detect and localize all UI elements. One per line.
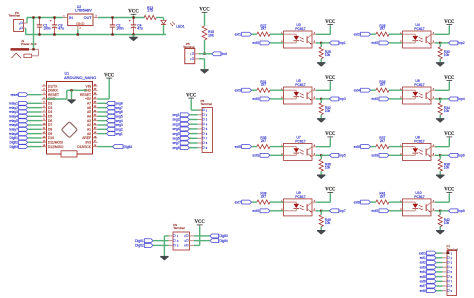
wire seg6 U1 [98,111,107,113]
svg-text:Terminal: Terminal [201,102,213,106]
net label seg4 at P8 [172,127,189,131]
svg-text:inp1: inp1 [339,41,345,45]
svg-text:Terminal: Terminal [447,248,459,252]
junction inp4 node [439,98,441,100]
wire relay1 [28,102,42,104]
wire U1 gnd drop [71,90,73,99]
ground P5 [200,69,208,74]
terminal P8 [198,99,213,152]
wire to inp7 flag [321,210,329,212]
svg-text:2k7: 2k7 [261,83,266,87]
svg-text:VCC: VCC [325,76,336,81]
svg-text:inp5: inp5 [339,153,345,157]
wire ext5 P7 [436,276,442,278]
junction U2 gnd [77,33,79,35]
power VCC U7 [325,132,336,138]
resistor R28 10k [319,47,331,59]
wire ext7 to R39 [252,201,257,203]
wire U7 emitter [316,154,321,156]
junction P7 pin1 [447,251,450,254]
net label inp4 [449,97,465,101]
net label seg1 at U1 [107,132,123,136]
svg-text:10k: 10k [325,53,331,57]
ground U3 [317,62,325,67]
net label inp5 [330,153,346,157]
net label Digit2 at U1 [9,140,27,144]
resistor R30 10k [438,47,450,59]
wire seg1 P8 [190,114,198,116]
net label Digit4 at U1 [113,145,133,149]
svg-text:PC817: PC817 [295,195,305,199]
wire U3 emitter [316,42,321,44]
resistor R40 10k [319,215,331,227]
wire VCC to P8 pin1 [191,99,202,110]
wire U3 collector to VCC [316,26,330,35]
wire ext4 to R33 [371,89,376,91]
wire ext1 P7 [436,257,442,259]
svg-text:reset: reset [11,93,19,97]
capacitor C4 47u [129,18,143,35]
svg-text:GND: GND [76,22,85,26]
svg-text:10k: 10k [444,221,450,225]
net label Digit3 at U1 [9,145,27,149]
wire LED cathode to rail [163,25,165,35]
svg-text:100n: 100n [116,26,124,30]
net label extG at U4 [371,41,389,45]
LED LED1 [161,20,185,28]
wire R42 to ground [439,227,441,230]
svg-text:inp8: inp8 [458,209,464,213]
svg-text:VCC: VCC [195,220,206,225]
svg-text:10k: 10k [325,221,331,225]
net label seg7 at U1 [107,106,123,110]
wire R41 to U10 [389,201,403,203]
Arduino USB tab [61,151,77,157]
net label ext1 at P7 [420,256,437,260]
svg-text:Digit3: Digit3 [219,234,228,238]
svg-text:10k: 10k [444,109,450,113]
wire inp7 to R40 [320,211,322,215]
ground U7 [317,175,325,180]
svg-text:PC817: PC817 [295,27,305,31]
ground U10 [436,230,444,235]
net label seg5 at U1 [107,114,123,118]
svg-text:VCC: VCC [199,8,210,13]
svg-text:VCC: VCC [325,20,336,25]
wire R33 to U6 [389,89,403,91]
terminal P9 [169,223,195,250]
svg-text:ext3: ext3 [420,265,426,269]
svg-text:2k7: 2k7 [261,195,266,199]
svg-text:47u: 47u [58,26,64,30]
wire U4 collector to VCC [435,26,449,35]
net label ext1 [235,32,252,36]
net label inp7 [330,209,346,213]
svg-text:ext3: ext3 [235,88,241,92]
wire Digit1 U1 [28,137,42,139]
Arduino pins right [77,84,97,149]
resistor R15 10K [202,26,215,40]
voltage regulator U2 L7805ABV [63,5,99,29]
optocoupler U8 PC817 [400,136,435,161]
terminal P7 [443,245,459,296]
wire seg4 P8 [190,128,198,130]
svg-text:VCC: VCC [444,20,455,25]
wire extG to U3 [270,42,284,44]
wire P9 pin1 to ground [164,236,168,256]
resistor R33 2k7 [376,80,389,93]
svg-text:ext8: ext8 [354,200,360,204]
svg-text:D13/SCK: D13/SCK [77,145,92,149]
resistor R35 2k7 [257,136,270,149]
wire relay7 [28,128,42,130]
net label ext5 at P7 [420,275,437,279]
wire relay5 [28,120,42,122]
resistor R38 10k [438,159,450,171]
net label ext5 [235,145,252,149]
net label Digit1 at U1 [9,136,27,140]
wire seg3 P8 [190,123,198,125]
svg-text:extG: extG [252,209,259,213]
wire U8 emitter [435,154,440,156]
svg-text:Digit3: Digit3 [9,145,18,149]
svg-text:extG: extG [371,97,378,101]
svg-text:seg3: seg3 [172,122,179,126]
net label ext2 [354,32,371,36]
wire Digit2 U1 [28,141,42,143]
svg-text:Digit1: Digit1 [135,239,144,243]
wire R27 to U3 [270,33,284,35]
wire ext3 P7 [436,266,442,268]
junction inst node [203,53,205,55]
svg-text:inp2: inp2 [458,41,464,45]
svg-text:IN: IN [69,16,73,20]
svg-text:47u: 47u [137,26,143,30]
svg-text:10k: 10k [444,166,450,170]
svg-text:ext7: ext7 [420,284,426,288]
wire extG to U6 [389,98,403,100]
svg-text:VCC: VCC [186,93,197,98]
net label relay7 [9,127,28,131]
optocoupler U6 PC817 [400,79,435,104]
svg-text:ext7: ext7 [235,200,241,204]
wire R32 to ground [320,115,322,118]
svg-text:ext4: ext4 [354,88,360,92]
junction C4 top [132,16,134,18]
wire GND net of U1 [47,90,87,99]
junction inp2 node [439,42,441,44]
svg-text:100n: 100n [43,26,51,30]
svg-text:inp7: inp7 [339,209,345,213]
net label ext3 [235,88,252,92]
svg-text:VCC: VCC [104,73,115,78]
wire ext4 P7 [436,271,442,273]
wire extG to U8 [389,154,403,156]
net label relay1 [9,101,28,105]
wire U7 collector to VCC [316,138,330,147]
ground U9 [317,230,325,235]
wire R28 to ground [320,59,322,62]
net label Digit2 at P9 [135,243,153,247]
svg-text:PC817: PC817 [295,139,305,143]
wire P9 pin4 [194,240,210,242]
resistor R39 2k7 [257,192,270,205]
net label extG at P7 [419,251,436,255]
wire P6 pin2 to GND rail [26,28,166,34]
wire R15 to junction [204,40,206,54]
wire to inp3 flag [321,98,329,100]
wire inp4 to R34 [439,99,441,103]
svg-text:extG: extG [371,153,378,157]
junction VIN rail / jack [32,16,34,18]
svg-text:VCC: VCC [444,132,455,137]
net label extG at U8 [371,153,389,157]
net label ext7 at P7 [420,284,437,288]
resistor R27 2k7 [257,24,270,37]
net label ext4 [354,88,371,92]
resistor R36 10k [319,159,331,171]
wire ext7 P7 [436,285,442,287]
net label seg1 at P8 [172,113,189,117]
net label seg2 at P8 [172,118,189,122]
optocoupler U7 PC817 [281,136,316,161]
svg-text:PC817: PC817 [414,139,424,143]
power VCC main [128,10,139,16]
wire ext2 to R29 [371,33,376,35]
svg-text:2k7: 2k7 [380,195,385,199]
Arduino logo diamond [61,122,77,138]
svg-text:10k: 10k [325,166,331,170]
svg-text:seg7: seg7 [172,141,179,145]
svg-text:ext2: ext2 [354,32,360,36]
wire U6 emitter [435,98,440,100]
wire R36 to ground [320,171,322,174]
power VCC P5 [199,8,210,14]
svg-text:275: 275 [147,9,153,13]
ground U4 [436,62,444,67]
wire seg2 U1 [98,128,107,130]
net label extG at U7 [252,153,270,157]
wire VCC rail [98,17,145,19]
svg-text:10K: 10K [208,33,215,37]
net label inp8 [449,209,465,213]
wire inp2 to R30 [439,43,441,47]
net label extG at U6 [371,97,389,101]
svg-text:Digit2: Digit2 [135,244,144,248]
wire C4 gnd stem [133,35,135,37]
power VCC P9 [195,220,206,226]
wire ext3 to R31 [252,89,257,91]
wire VCC stub [133,16,135,18]
svg-text:seg1: seg1 [116,132,123,136]
wire seg8 U1 [98,102,107,104]
optocoupler U9 PC817 [281,191,316,216]
wire U2 GND pin to rail [77,29,79,34]
wire VCC to R15 [204,13,206,26]
optocoupler U5 PC817 [281,79,316,104]
svg-text:10k: 10k [325,109,331,113]
net label relay4 [9,114,28,118]
wire U4 emitter [435,42,440,44]
net label ext8 [354,200,371,204]
svg-text:VCC: VCC [128,10,139,15]
wire to inp2 flag [440,42,448,44]
wire relay2 [28,107,42,109]
svg-text:seg8: seg8 [172,146,179,150]
wire relay6 [28,124,42,126]
wire seg2 P8 [190,119,198,121]
Arduino pins left [42,84,64,149]
svg-text:D12/MISO: D12/MISO [48,145,64,149]
junction inp6 node [439,154,441,156]
net label ext6 at P7 [420,279,437,283]
Arduino Nano U1 body [47,71,97,154]
wire ext6 to R37 [371,146,376,148]
svg-text:2k7: 2k7 [380,83,385,87]
junction inp8 node [439,210,441,212]
svg-text:LED1: LED1 [176,24,184,28]
svg-text:inp3: inp3 [339,97,345,101]
wire R40 to ground [320,227,322,230]
junction inp3 node [320,98,322,100]
junction C1 top [38,16,40,18]
svg-text:seg5: seg5 [172,132,179,136]
optocoupler U4 PC817 [400,23,435,48]
svg-text:ext2: ext2 [420,261,426,265]
svg-text:VCC: VCC [325,132,336,137]
svg-text:seg4: seg4 [172,127,179,131]
wire R29 to U4 [389,33,403,35]
svg-text:VCC: VCC [444,76,455,81]
optocoupler U10 PC817 [400,191,435,216]
net label seg6 at P8 [172,136,189,140]
resistor R42 10k [438,215,450,227]
wire U9 collector to VCC [316,194,330,203]
resistor R13 275 [144,6,156,20]
wire +5V to VCC [98,79,110,99]
net label relay2 [9,106,28,110]
svg-text:Terminal: Terminal [173,226,185,230]
net label relay8 [9,132,28,136]
wire extG to U10 [389,210,403,212]
svg-text:ext1: ext1 [420,256,426,260]
resistor R37 2k7 [376,136,389,149]
wire ext8 P7 [436,290,442,292]
svg-text:Terminal: Terminal [183,45,195,49]
wire to inp6 flag [440,154,448,156]
wire extG P7 [436,252,442,254]
wire ext8 to R41 [371,201,376,203]
wire seg3 U1 [98,124,107,126]
svg-text:PC817: PC817 [295,83,305,87]
net label inp2 [449,41,465,45]
junction jack pin [32,48,34,50]
junction inp1 node [320,42,322,44]
ground U6 [436,118,444,123]
power VCC U1 [104,73,115,79]
resistor R29 2k7 [376,24,389,37]
net label seg8 at P8 [172,146,189,150]
net label seg2 at U1 [107,127,123,131]
svg-text:2k7: 2k7 [261,139,266,143]
resistor R34 10k [438,103,450,115]
wire inp1 to R28 [320,43,322,47]
capacitor C3 47u [50,18,64,35]
power VCC U6 [444,76,455,82]
wire R37 to U8 [389,146,403,148]
wire ext1 to R27 [252,33,257,35]
power VCC U4 [444,20,455,26]
wire U9 emitter [316,210,321,212]
svg-text:10k: 10k [444,53,450,57]
junction inp7 node [320,210,322,212]
svg-text:inst: inst [222,52,227,56]
svg-text:VCC: VCC [325,188,336,193]
net label relay3 [9,110,28,114]
wire R38 to ground [439,171,441,174]
wire Digit3 U1 [28,146,42,148]
svg-text:inp4: inp4 [458,97,464,101]
net label seg8 at U1 [107,101,123,105]
net label inst [212,52,227,56]
svg-text:L7805ABV: L7805ABV [75,8,92,12]
wire junction to inst flag [205,53,212,55]
terminal P5 [183,42,199,64]
wire Digit4 U1 [98,146,113,148]
net label extG at U9 [252,209,270,213]
wire U6 collector to VCC [435,82,449,91]
wire Digit2 P9 [153,244,169,246]
junction C2 bottom [111,33,113,35]
net label seg4 at U1 [107,119,123,123]
wire R35 to U7 [270,146,284,148]
svg-text:extG: extG [371,41,378,45]
terminal P6 [9,11,28,32]
wire to inp8 flag [440,210,448,212]
net label relay6 [9,123,28,127]
svg-text:ext6: ext6 [354,145,360,149]
wire extG to U9 [270,210,284,212]
wire seg4 U1 [98,120,107,122]
wire seg8 P8 [190,147,198,149]
svg-text:2k7: 2k7 [380,139,385,143]
wire ext5 to R35 [252,146,257,148]
net label Digit3 at P9 [210,234,228,238]
wire ext6 P7 [436,280,442,282]
wire reset [28,94,42,96]
resistor R31 2k7 [257,80,270,93]
net label extG at U3 [252,41,270,45]
wire U5 emitter [316,98,321,100]
svg-text:Terminal: Terminal [9,14,21,18]
svg-text:PC817: PC817 [414,27,424,31]
junction C4 bottom [132,33,134,35]
svg-text:extG: extG [371,209,378,213]
junction C2 top [111,16,113,18]
junction C3 top [53,16,55,18]
ground U1 [67,99,75,104]
svg-text:extG: extG [252,41,259,45]
optocoupler U3 PC817 [281,23,316,48]
svg-text:ext8: ext8 [420,289,426,293]
net label seg6 at U1 [107,110,123,114]
wire inp3 to R32 [320,99,322,103]
svg-text:Power Jack: Power Jack [21,42,37,46]
svg-text:2k7: 2k7 [261,27,266,31]
net label seg5 at P8 [172,132,189,136]
wire R31 to U5 [270,89,284,91]
wire to inp1 flag [321,42,329,44]
